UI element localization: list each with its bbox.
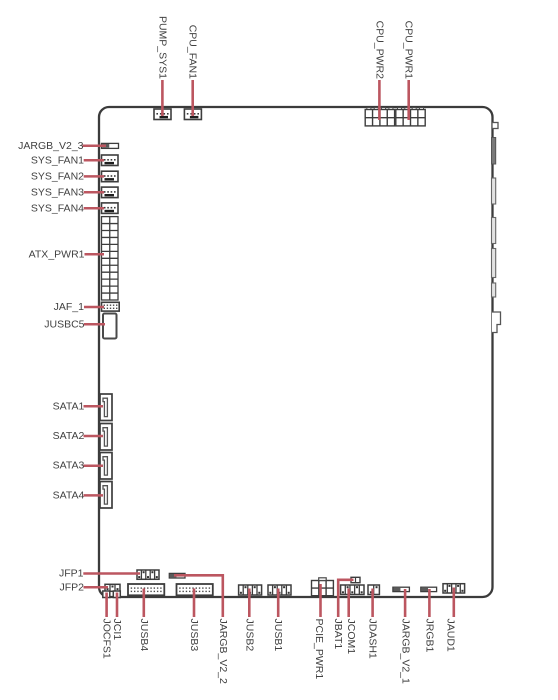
svg-text:CPU_FAN1: CPU_FAN1 [187, 25, 199, 79]
connector JUSB3 [177, 584, 213, 595]
label JAUD1 [445, 619, 457, 652]
svg-text:CPU_PWR1: CPU_PWR1 [403, 21, 415, 80]
svg-text:SATA2: SATA2 [53, 430, 85, 442]
svg-text:SATA4: SATA4 [53, 489, 85, 501]
label JCI1 [111, 619, 123, 641]
svg-text:SYS_FAN4: SYS_FAN4 [31, 202, 84, 214]
svg-text:JUSB1: JUSB1 [272, 619, 284, 652]
svg-text:JCI1: JCI1 [111, 619, 123, 641]
leader CPU_PWR2 [378, 80, 381, 120]
svg-text:SYS_FAN2: SYS_FAN2 [31, 170, 84, 182]
label SYS_FAN4 [31, 202, 84, 214]
connector JFP2 [105, 584, 120, 591]
label CPU_PWR2 [373, 21, 385, 80]
connector JUSB1 [268, 585, 291, 595]
connector JDASH1 [368, 585, 379, 595]
leader SYS_FAN1 [84, 159, 104, 162]
connector JAF_1 [102, 302, 120, 311]
label CPU_PWR1 [403, 21, 415, 80]
rear-IO stepped tab [492, 312, 501, 333]
connector JFP1 [137, 570, 159, 579]
label SATA3 [53, 460, 85, 472]
connector PCIE_PWR1 [312, 578, 334, 596]
leader SYS_FAN4 [84, 207, 104, 210]
svg-text:JDASH1: JDASH1 [366, 619, 378, 659]
leader JDASH1 [371, 589, 374, 618]
leader JARGB_V2_1 [404, 589, 407, 617]
label JUSBC5 [44, 318, 84, 330]
leader JARGB_V2_3 [83, 145, 107, 148]
label JCOM1 [345, 619, 357, 655]
leader JCI1 [116, 593, 119, 618]
leader SATA1 [84, 405, 104, 408]
svg-text:JFP2: JFP2 [59, 581, 84, 593]
svg-text:JFP1: JFP1 [59, 568, 84, 580]
connector JCI1 [113, 591, 120, 598]
leader CPU_FAN1 [191, 80, 194, 116]
svg-text:ATX_PWR1: ATX_PWR1 [29, 248, 85, 260]
rear-IO tab 5 [492, 283, 496, 297]
label JBAT1 [332, 619, 344, 650]
svg-text:SYS_FAN1: SYS_FAN1 [31, 154, 84, 166]
leader JFP1 [83, 572, 140, 575]
leader JARGB_V2_2 [174, 575, 223, 617]
label JAF_1 [54, 301, 85, 313]
label JARGB_V2_3 [18, 140, 84, 152]
leader JUSB2 [248, 589, 251, 618]
rear-IO tab 2 [492, 178, 496, 204]
connector JARGB_V2_2 [169, 573, 185, 578]
label JDASH1 [366, 619, 378, 659]
svg-text:JUSB3: JUSB3 [188, 619, 200, 652]
connector JARGB_V2_3 [102, 143, 119, 148]
label ATX_PWR1 [29, 248, 85, 260]
connector ATX_PWR1 [102, 217, 119, 300]
label JUSB3 [188, 619, 200, 652]
label SYS_FAN2 [31, 170, 84, 182]
connector CPU_PWR2 [365, 108, 394, 126]
connector JAUD1 [443, 584, 465, 593]
connector SYS_FAN3 [102, 187, 119, 198]
svg-text:JOCFS1: JOCFS1 [101, 619, 113, 659]
svg-text:SATA3: SATA3 [53, 460, 85, 472]
leader SATA2 [84, 435, 104, 438]
label SATA2 [53, 430, 85, 442]
label CPU_FAN1 [187, 25, 199, 79]
leader SYS_FAN3 [84, 191, 104, 194]
leader JAUD1 [452, 588, 455, 618]
label SYS_FAN3 [31, 186, 84, 198]
connector CPU_FAN1 [184, 109, 201, 120]
connector SATA2 [100, 424, 112, 451]
label SATA1 [53, 400, 85, 412]
label JUSB1 [272, 619, 284, 652]
rear-IO tab small top [492, 123, 498, 129]
label JARGB_V2_2 [217, 619, 229, 685]
connector JUSB2 [239, 585, 262, 595]
label JARGB_V2_1 [400, 619, 412, 685]
label JRGB1 [423, 619, 435, 653]
svg-text:JUSB4: JUSB4 [138, 619, 150, 652]
leader JRGB1 [428, 589, 431, 617]
leader JCOM1 [347, 589, 350, 618]
label SYS_FAN1 [31, 154, 84, 166]
connector CPU_PWR1 [396, 108, 425, 126]
svg-text:JUSB2: JUSB2 [243, 619, 255, 652]
label PUMP_SYS1 [156, 16, 168, 79]
connector SYS_FAN1 [102, 155, 119, 166]
leader ATX_PWR1 [85, 253, 105, 256]
leader JUSBC5 [84, 323, 105, 326]
svg-text:JBAT1: JBAT1 [332, 619, 344, 650]
connector SYS_FAN2 [102, 171, 119, 182]
label JOCFS1 [101, 619, 113, 659]
svg-text:JUSBC5: JUSBC5 [44, 318, 84, 330]
connector JCOM1 [341, 585, 364, 595]
svg-text:JCOM1: JCOM1 [345, 619, 357, 655]
motherboard outline [99, 107, 493, 597]
svg-text:JARGB_V2_2: JARGB_V2_2 [217, 619, 229, 685]
label SATA4 [53, 489, 85, 501]
connector SATA1 [100, 394, 112, 421]
connector SYS_FAN4 [102, 203, 119, 214]
connector SATA3 [100, 453, 112, 480]
label JFP1 [59, 568, 84, 580]
connector PUMP_SYS1 [154, 109, 171, 120]
leader JUSB3 [193, 589, 196, 618]
leader JUSB1 [277, 589, 280, 618]
rear-IO tab 4 [492, 249, 496, 278]
connector SATA4 [100, 482, 112, 509]
label JUSB2 [243, 619, 255, 652]
svg-text:JRGB1: JRGB1 [423, 619, 435, 653]
leader CPU_PWR1 [407, 80, 410, 120]
leader JOCFS1 [105, 593, 108, 618]
connector JOCFS1 [103, 591, 110, 598]
rear-IO tab dark [492, 138, 496, 165]
svg-text:JAF_1: JAF_1 [54, 301, 85, 313]
svg-text:JAUD1: JAUD1 [445, 619, 457, 652]
label PCIE_PWR1 [313, 619, 325, 680]
svg-text:PUMP_SYS1: PUMP_SYS1 [156, 16, 168, 79]
svg-text:JARGB_V2_1: JARGB_V2_1 [400, 619, 412, 685]
leader JAF_1 [84, 306, 104, 309]
leader JUSB4 [143, 589, 146, 618]
leader JBAT1 [338, 580, 353, 617]
connector JARGB_V2_1 [393, 587, 410, 591]
leader SYS_FAN2 [84, 175, 104, 178]
connector JRGB1 [421, 587, 437, 591]
svg-text:PCIE_PWR1: PCIE_PWR1 [313, 619, 325, 680]
rear-IO tab 3 [492, 218, 496, 244]
leader PCIE_PWR1 [319, 584, 322, 617]
leader SATA3 [84, 464, 104, 467]
svg-text:JARGB_V2_3: JARGB_V2_3 [18, 140, 84, 152]
label JFP2 [59, 581, 84, 593]
svg-text:SATA1: SATA1 [53, 400, 85, 412]
connector JUSB4 [128, 584, 164, 595]
leader PUMP_SYS1 [161, 80, 164, 116]
svg-text:SYS_FAN3: SYS_FAN3 [31, 186, 84, 198]
leader SATA4 [84, 494, 104, 497]
svg-text:CPU_PWR2: CPU_PWR2 [373, 21, 385, 80]
label JUSB4 [138, 619, 150, 652]
connector JBAT1 [351, 577, 360, 582]
leader JFP2 [84, 586, 109, 589]
connector JUSBC5 [103, 314, 117, 339]
